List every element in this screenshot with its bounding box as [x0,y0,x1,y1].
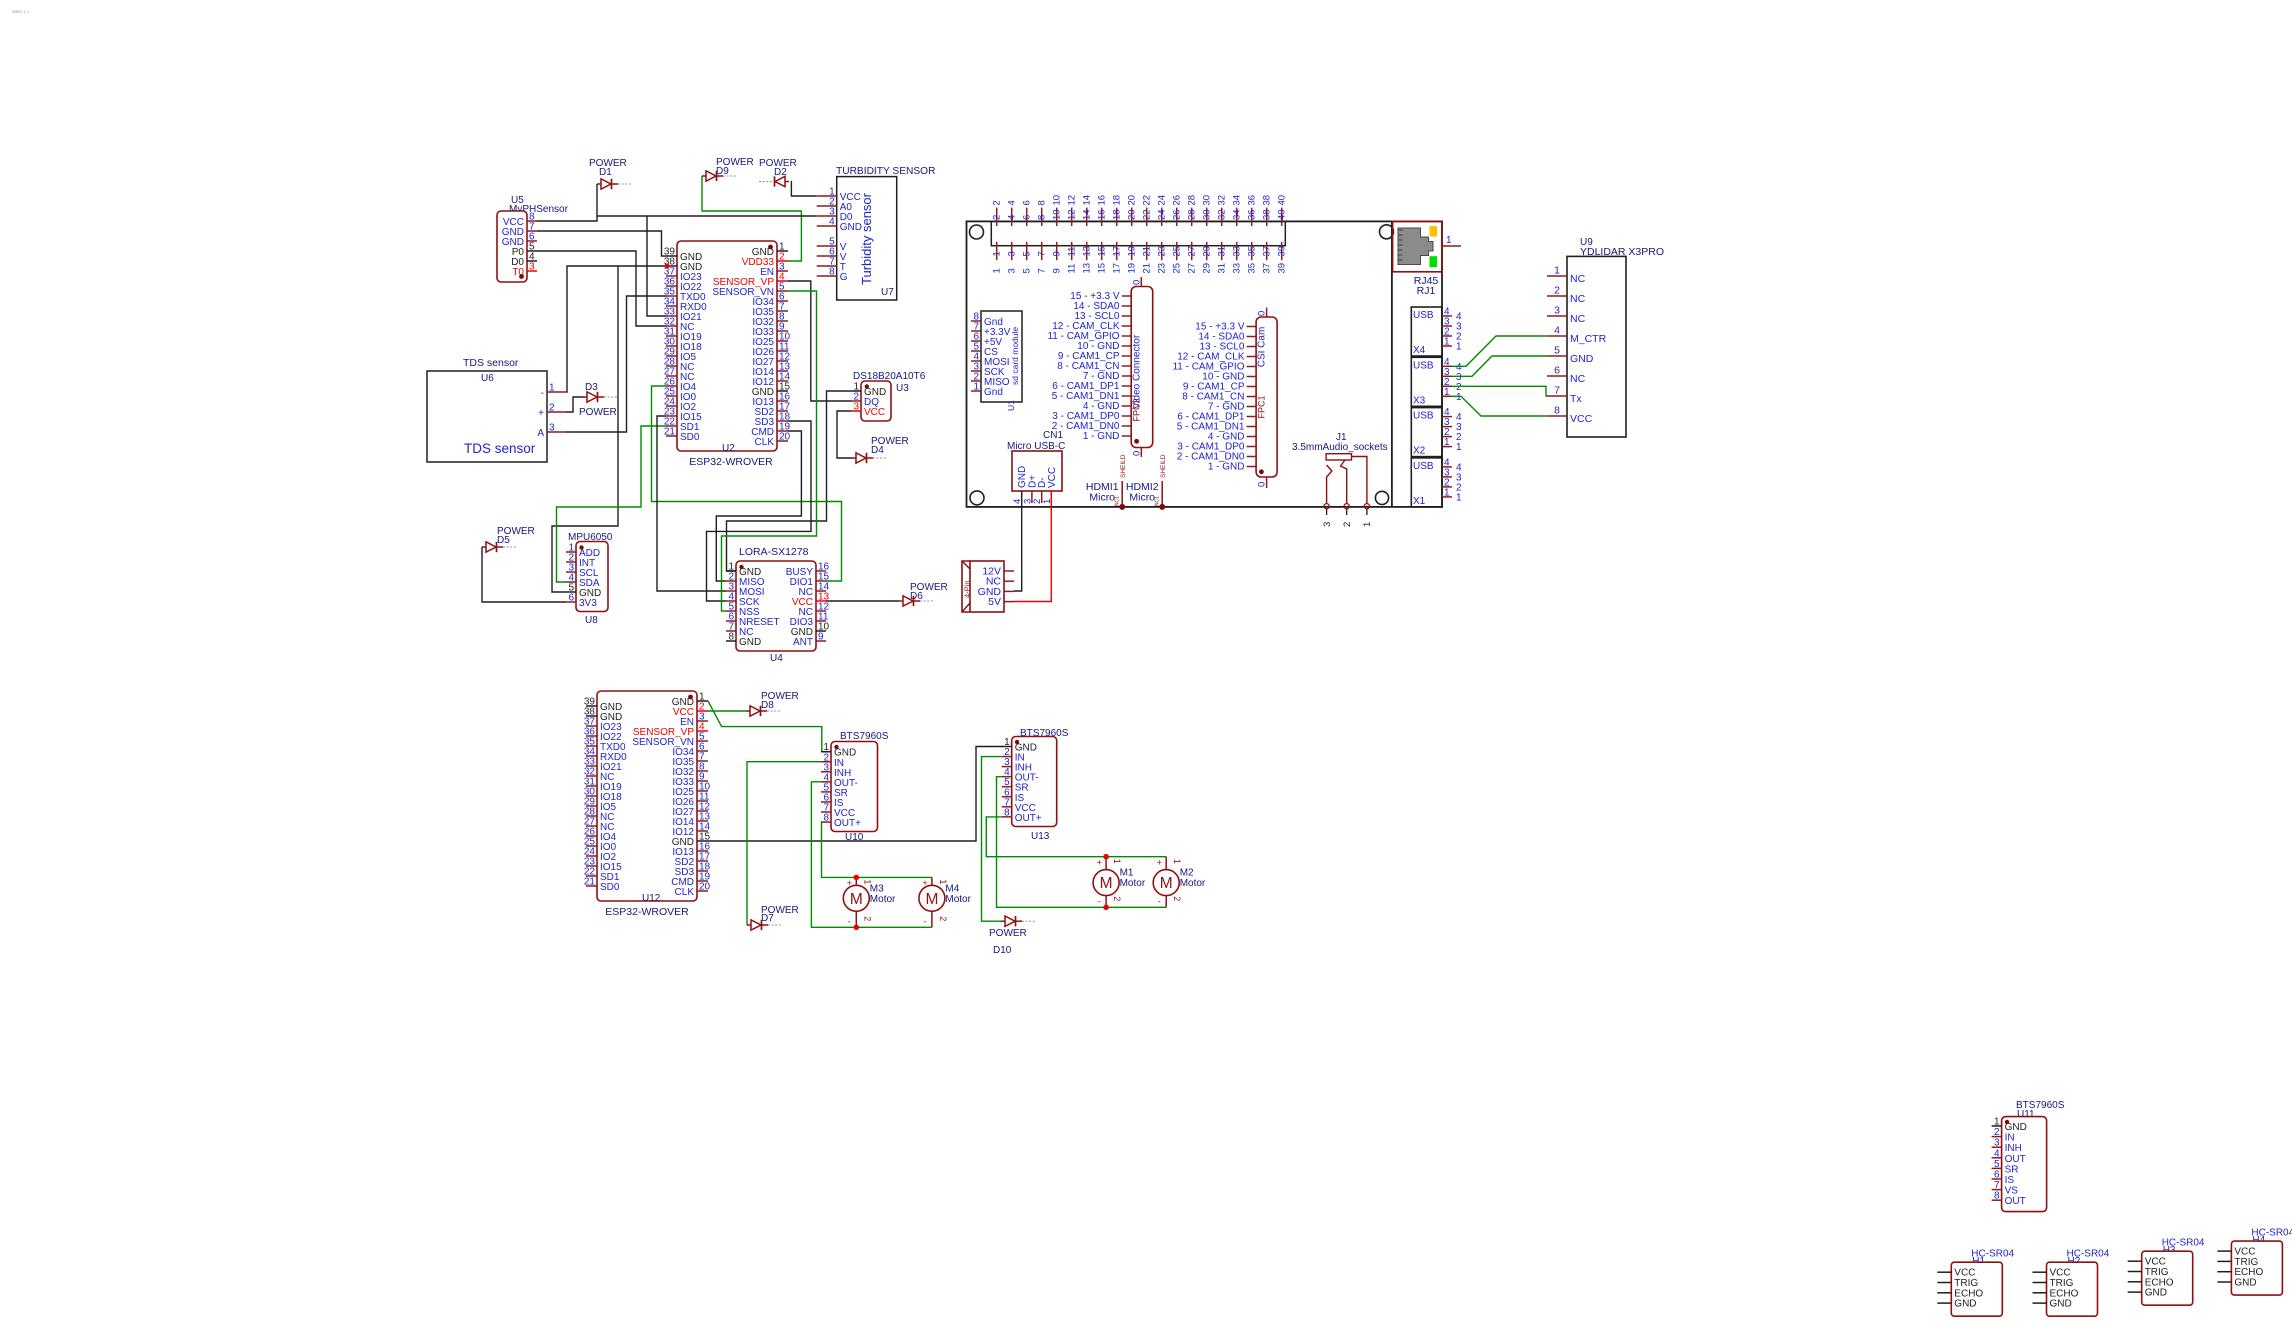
motor M1 [1093,857,1146,908]
svg-text:1: 1 [1456,442,1462,453]
IC H3 HC-SR04 [2128,1238,2205,1306]
svg-text:NC: NC [1570,293,1586,305]
svg-text:13: 13 [1082,246,1093,257]
wire U3 VCC to D4 [837,411,852,458]
svg-text:2: 2 [992,215,1003,220]
svg-text:D7: D7 [761,913,774,924]
svg-text:0: 0 [1132,280,1143,285]
connector X1 USB [1411,457,1462,507]
svg-text:15: 15 [1097,246,1108,257]
svg-text:D8: D8 [761,700,774,711]
svg-text:40: 40 [1277,209,1288,220]
wire U13 IN to D10 [982,757,1002,922]
svg-text:U7: U7 [881,287,894,298]
svg-text:USB: USB [1413,360,1434,371]
svg-text:M2: M2 [1180,868,1194,879]
svg-text:sd card module: sd card module [1010,327,1020,385]
junction M3 bottom [854,925,860,931]
svg-text:20: 20 [1127,209,1138,220]
svg-text:8: 8 [1037,215,1048,220]
svg-text:Motor: Motor [1180,878,1206,889]
svg-text:IN: IN [2005,1133,2015,1144]
diode D1 POWER [589,158,631,189]
svg-text:1: 1 [973,382,979,393]
svg-text:1: 1 [1456,492,1462,503]
svg-text:-: - [1158,896,1161,906]
wire CN1 VCC to 4-pin 5V [1014,503,1051,602]
svg-text:18: 18 [1112,209,1123,220]
svg-text:40: 40 [1277,195,1288,206]
svg-text:X1: X1 [1413,496,1426,507]
wire U6 + to D3 [566,397,583,412]
svg-text:U8: U8 [585,615,598,626]
motor M3 [843,877,896,927]
svg-text:1 - GND: 1 - GND [1208,462,1245,473]
svg-text:4-Pin: 4-Pin [963,580,972,598]
svg-text:TDS sensor: TDS sensor [463,357,519,369]
svg-text:OUT: OUT [2005,1154,2026,1165]
IC U2 ESP32-WROVER [664,241,791,468]
wire U2 SENSOR_VP to U3 DQ [788,281,851,401]
wire U10 OUT+ to M3/M4 + [821,822,932,877]
mounting hole TR [1380,225,1394,239]
svg-text:-: - [923,916,926,926]
svg-text:37: 37 [1262,246,1273,257]
wire U4 VCC to D6 [826,600,899,602]
svg-text:TDS sensor: TDS sensor [464,441,536,456]
svg-text:8: 8 [728,632,734,643]
svg-text:28: 28 [1187,209,1198,220]
svg-text:X2: X2 [1413,446,1426,457]
svg-text:NC1: NC1 [1155,496,1161,506]
wire U5 P0 to U2 NC32 [537,251,666,326]
IC U12 ESP32-WROVER [584,691,711,918]
svg-text:2: 2 [1112,896,1122,901]
svg-text:2: 2 [938,916,948,921]
svg-text:4: 4 [1007,215,1018,220]
svg-text:GND: GND [739,637,761,648]
svg-text:30: 30 [1202,209,1213,220]
connector X4 USB [1411,307,1462,357]
svg-text:1: 1 [992,251,1003,256]
svg-text:POWER: POWER [579,407,617,418]
svg-text:14: 14 [1082,195,1093,206]
svg-text:A: A [537,428,544,439]
svg-text:-: - [541,388,544,399]
svg-text:10: 10 [1052,195,1063,206]
svg-text:29: 29 [1202,263,1213,274]
svg-text:9: 9 [818,632,824,643]
connector X2 USB [1411,407,1462,457]
svg-text:21: 21 [584,877,596,888]
svg-text:6: 6 [568,593,574,604]
svg-text:USB: USB [1413,461,1434,472]
svg-text:SHEILD: SHEILD [1120,454,1127,478]
svg-text:32: 32 [1217,195,1228,206]
svg-text:USB: USB [1413,411,1434,422]
svg-text:21: 21 [664,427,676,438]
svg-text:3V3: 3V3 [579,598,597,609]
mounting hole TL [970,225,984,239]
svg-text:11: 11 [1067,247,1078,257]
svg-text:36: 36 [1247,195,1258,206]
svg-text:2: 2 [1554,285,1560,297]
svg-text:18: 18 [1112,195,1123,206]
svg-text:VCC: VCC [864,407,885,418]
svg-text:GND: GND [1570,353,1594,365]
wire U2 IO15 to U4 MOSI [657,416,726,591]
svg-text:X4: X4 [1413,345,1426,356]
svg-text:4: 4 [1994,1148,2000,1159]
svg-text:2: 2 [1994,1127,2000,1138]
svg-text:U6: U6 [481,373,494,384]
40-pin header [991,195,1287,274]
svg-text:+: + [847,878,852,888]
svg-text:21: 21 [1142,246,1153,257]
svg-text:D4: D4 [871,445,884,456]
svg-text:1: 1 [992,268,1003,273]
svg-text:17: 17 [1112,263,1123,274]
IC U5 MyPHSensor [497,195,569,282]
svg-text:+: + [538,408,544,419]
svg-text:VS: VS [2005,1186,2019,1197]
svg-text:X3: X3 [1413,395,1426,406]
svg-text:3: 3 [1994,1138,2000,1149]
wire GND bus branch to U8 GND [552,266,618,592]
wire D5 to U8 3V3 [482,547,566,602]
svg-text:U3: U3 [896,383,909,394]
svg-text:+: + [1097,857,1102,867]
svg-text:GND: GND [2234,1278,2256,1289]
IC U13 BTS7960S [1002,728,1069,842]
svg-text:24: 24 [1157,195,1168,206]
svg-text:29: 29 [1202,246,1213,257]
wire U12 GND15 to U13 GND [708,747,1003,842]
svg-text:12: 12 [1067,209,1078,220]
svg-text:Motor: Motor [1120,878,1146,889]
junction M1 bottom [1103,905,1109,911]
svg-text:M1: M1 [1120,868,1134,879]
svg-text:M: M [1100,875,1113,892]
svg-text:1: 1 [1444,487,1450,498]
connector HDMI2 Micro [1126,454,1167,510]
svg-text:1: 1 [1112,859,1122,864]
wire U13 OUT- to M1/M2 - [997,777,1167,908]
svg-text:3: 3 [1007,268,1018,273]
svg-text:+: + [922,878,927,888]
diode D6 POWER [899,582,948,606]
diode D3 POWER [579,382,617,418]
svg-text:-: - [1098,896,1101,906]
svg-text:0: 0 [1257,482,1268,487]
wire U6 - to U2 GND38 [566,266,666,392]
svg-text:16: 16 [1097,195,1108,206]
mounting hole BL [970,491,984,505]
svg-text:Micro: Micro [1089,492,1115,504]
wire U12 VCC to D8 [708,710,746,712]
svg-text:SD0: SD0 [600,882,620,893]
svg-text:Gnd: Gnd [984,387,1003,398]
svg-text:M_CTR: M_CTR [1570,333,1607,345]
svg-text:Motor: Motor [945,894,971,905]
wire U2 IO4 to U4 DIO1 [652,386,842,581]
svg-text:7: 7 [1554,385,1560,397]
diode D7 POWER [747,905,799,930]
svg-text:35: 35 [1247,246,1258,257]
svg-text:NC: NC [1570,273,1586,285]
svg-text:11: 11 [1067,264,1078,274]
IC U9 YDLIDAR X3PRO [1547,237,1664,437]
svg-text:TURBIDITY SENSOR: TURBIDITY SENSOR [836,166,935,177]
svg-text:U2: U2 [722,443,735,454]
svg-text:9: 9 [1052,268,1063,273]
svg-text:2: 2 [1172,896,1182,901]
svg-text:27: 27 [1187,263,1198,274]
svg-text:LORA-SX1278: LORA-SX1278 [739,546,809,558]
IC U7 Turbidity sensor [817,166,936,300]
svg-text:1: 1 [1362,522,1373,527]
wire U9 M_CTR to X3 pin4 [1452,336,1547,366]
svg-text:M: M [850,891,863,908]
svg-text:Video Connector: Video Connector [1132,334,1143,409]
svg-text:GND: GND [2050,1299,2072,1310]
wire U9 GND to X3 pin3 [1452,356,1547,376]
IC H1 HC-SR04 [1937,1249,2014,1317]
svg-text:34: 34 [1232,195,1243,206]
IC H2 HC-SR04 [2033,1249,2110,1317]
svg-text:1: 1 [1172,859,1182,864]
svg-text:1: 1 [1444,437,1450,448]
svg-text:26: 26 [1172,209,1183,220]
svg-text:D5: D5 [497,535,510,546]
svg-text:FPC1: FPC1 [1257,395,1267,418]
svg-text:OUT+: OUT+ [834,818,861,829]
svg-text:38: 38 [1262,209,1273,220]
svg-text:31: 31 [1217,263,1228,274]
svg-text:6: 6 [1022,200,1033,205]
wire U3 GND to U4 GND [727,391,852,571]
carrier board outline [967,221,1443,507]
svg-text:6: 6 [1994,1170,2000,1181]
svg-text:39: 39 [1277,246,1288,257]
svg-text:1 - GND: 1 - GND [1083,431,1120,442]
board divider [1391,221,1393,507]
IC U3 DS18B20A10T6 [851,371,926,421]
svg-text:1: 1 [1446,235,1452,246]
svg-text:RJ1: RJ1 [1417,285,1436,297]
svg-text:U12: U12 [642,893,661,904]
diode D2 POWER [759,158,797,187]
svg-text:POWER: POWER [989,928,1027,939]
svg-text:2: 2 [1342,522,1353,527]
IC U8 MPU6050 [566,532,613,626]
svg-text:U13: U13 [1031,831,1050,842]
svg-text:27: 27 [1187,246,1198,257]
svg-text:8: 8 [1004,807,1010,818]
svg-text:1: 1 [1444,337,1450,348]
svg-text:3.5mmAudio_sockets: 3.5mmAudio_sockets [1292,442,1388,453]
svg-text:0: 0 [1132,451,1143,456]
svg-text:FPC2: FPC2 [1132,398,1142,421]
svg-text:NC: NC [1570,373,1586,385]
svg-text:12: 12 [1067,195,1078,206]
svg-text:25: 25 [1172,263,1183,274]
wire D2 to U7 VCC [791,182,817,197]
wire D9 to U2 VDD33 [702,176,801,261]
connector HDMI1 Micro [1086,454,1127,510]
svg-text:VCC: VCC [1570,413,1593,425]
wire U2 SENSOR_VN to U4 NSS [722,291,817,611]
IC U1 sd card module [971,311,1022,411]
motor M4 [919,877,972,927]
svg-text:Tx: Tx [1570,393,1582,405]
svg-text:22: 22 [1142,195,1153,206]
svg-text:23: 23 [1157,263,1168,274]
svg-text:2: 2 [862,916,872,921]
svg-text:4: 4 [1554,325,1560,337]
svg-text:30: 30 [1202,195,1213,206]
svg-text:1: 1 [1456,342,1462,353]
svg-text:3: 3 [1554,305,1560,317]
svg-text:21: 21 [1142,263,1153,274]
svg-text:20: 20 [699,882,711,893]
svg-text:SR: SR [2005,1164,2019,1175]
svg-text:USB: USB [1413,310,1434,321]
diode D8 POWER [746,691,799,716]
wire U2 SD3 to U4 SCK [707,421,812,601]
svg-text:IS: IS [2005,1175,2015,1186]
svg-text:4: 4 [1007,200,1018,205]
wire U9 VCC to X3 pin1 [1452,396,1547,416]
svg-text:26: 26 [1172,195,1183,206]
svg-text:35: 35 [1247,263,1258,274]
svg-text:CLK: CLK [675,887,695,898]
svg-text:ESP32-WROVER: ESP32-WROVER [689,456,773,468]
svg-text:M: M [1160,875,1173,892]
svg-text:25: 25 [1172,246,1183,257]
diode D5 POWER [482,526,535,552]
svg-text:CSI Cam: CSI Cam [1257,327,1268,368]
svg-text:ANT: ANT [793,637,813,648]
svg-text:1: 1 [1994,1117,2000,1128]
svg-text:28: 28 [1187,195,1198,206]
svg-text:ESP32-WROVER: ESP32-WROVER [605,906,689,918]
svg-text:NC: NC [1570,313,1586,325]
svg-text:22: 22 [1142,209,1153,220]
svg-text:19: 19 [1127,246,1138,257]
wire U9 Tx to X3 pin2 [1452,386,1547,396]
wire U13 OUT+ to M1/M2 + [986,817,1166,857]
svg-text:Micro: Micro [1129,492,1155,504]
svg-text:M4: M4 [945,883,959,894]
svg-text:+: + [1157,857,1162,867]
svg-text:23: 23 [1157,246,1168,257]
svg-text:4: 4 [829,217,835,228]
svg-text:34: 34 [1232,209,1243,220]
svg-text:3: 3 [1322,522,1333,527]
svg-text:GND: GND [1954,1299,1976,1310]
svg-text:5: 5 [1022,268,1033,273]
svg-text:31: 31 [1217,246,1228,257]
svg-text:M: M [925,891,938,908]
svg-text:37: 37 [1262,263,1273,274]
svg-text:3: 3 [853,402,859,413]
diode D4 POWER [852,436,909,463]
svg-text:8: 8 [1554,405,1560,417]
svg-text:U1: U1 [1006,400,1016,411]
svg-text:6: 6 [1022,215,1033,220]
IC U10 BTS7960S [821,731,889,843]
wire into U10 pin1 [822,751,831,753]
svg-text:20: 20 [779,432,791,443]
svg-text:M3: M3 [870,883,884,894]
svg-text:9: 9 [1052,251,1063,256]
svg-text:2: 2 [992,200,1003,205]
wire U10 OUT- to M3/M4 - [811,782,932,928]
svg-text:3: 3 [529,262,535,273]
connector FPC1 CSI Cam [1172,308,1277,489]
svg-text:38: 38 [1262,195,1273,206]
svg-text:36: 36 [1247,209,1258,220]
junction M1 top [1103,854,1109,860]
svg-text:8: 8 [823,813,829,824]
svg-text:3: 3 [1007,251,1018,256]
svg-text:INH: INH [2005,1143,2022,1154]
svg-text:5: 5 [1994,1159,2000,1170]
svg-text:15: 15 [1097,263,1108,274]
svg-text:SD0: SD0 [680,432,700,443]
connector FPC2 Video Connector [1047,277,1152,457]
svg-text:39: 39 [1277,263,1288,274]
motor M2 [1153,857,1206,908]
svg-text:1: 1 [1444,387,1450,398]
junction M3 top [854,875,860,881]
svg-text:5V: 5V [988,596,1001,608]
svg-text:10: 10 [1052,209,1063,220]
svg-text:SHEET 1 / 1: SHEET 1 / 1 [12,10,30,14]
svg-text:NC1: NC1 [1115,496,1121,506]
svg-text:16: 16 [1097,209,1108,220]
svg-text:3: 3 [549,423,555,434]
svg-text:8: 8 [1994,1191,2000,1202]
wire U5 GND to U2 GND39 [537,231,666,256]
svg-text:7: 7 [1037,268,1048,273]
connector RJ1 RJ45 [1393,221,1461,297]
svg-text:5: 5 [1554,345,1560,357]
IC U11 BTS7960S [1992,1100,2065,1212]
wire CN1 GND to 4-pin GND [1014,503,1022,591]
diode D9 POWER [702,157,754,181]
svg-text:5: 5 [1022,251,1033,256]
wire D0 branch to U2 IO21 [647,216,666,316]
svg-text:D10: D10 [993,945,1012,956]
svg-text:VCC: VCC [1047,467,1058,488]
svg-text:D1: D1 [599,167,612,178]
svg-text:6: 6 [1554,365,1560,377]
svg-text:U10: U10 [845,832,864,843]
svg-text:G: G [840,272,848,283]
diode D10 POWER [989,916,1035,956]
svg-text:0: 0 [1257,311,1268,316]
svg-text:CN1: CN1 [1043,430,1063,441]
svg-text:OUT: OUT [2005,1196,2026,1207]
svg-text:7: 7 [1994,1180,2000,1191]
mounting hole BR [1375,491,1388,504]
wire U2 CMD to U4 MISO [716,431,801,581]
wire U12 GND1 to U10 GND [708,701,822,752]
svg-text:1: 1 [1554,265,1560,277]
IC U6 TDS sensor [427,357,566,462]
